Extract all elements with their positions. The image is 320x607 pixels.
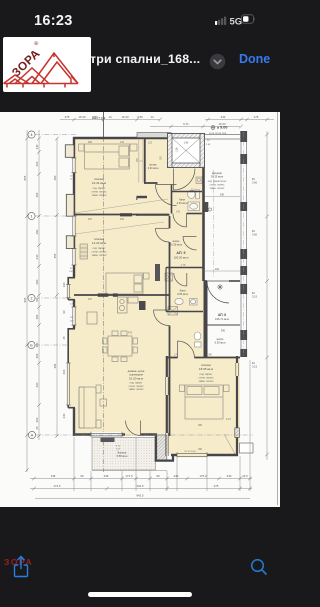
svg-text:2: 2 [31, 296, 33, 300]
svg-text:антре: антре [173, 240, 181, 243]
svg-text:210: 210 [35, 254, 39, 259]
svg-text:440: 440 [62, 369, 66, 374]
diagonal slope line bedroom2 [75, 222, 164, 234]
columns wall center line [243, 132, 245, 356]
nav title [90, 52, 200, 66]
planter dark rect under window [101, 438, 115, 443]
furniture living: dining table + chairs [103, 331, 138, 362]
svg-text:таван: латекс: таван: латекс [129, 388, 145, 391]
wall pier with meter [205, 202, 209, 212]
furniture bedroom2: wardrobe [80, 244, 88, 259]
svg-text:280: 280 [198, 424, 203, 427]
svg-text:5.58 кв.м: 5.58 кв.м [117, 454, 128, 458]
furniture living: fridge dark [139, 301, 146, 310]
window W1 [71, 158, 76, 173]
svg-text:467: 467 [88, 218, 93, 221]
roofs [4, 53, 79, 88]
svg-text:290: 290 [35, 279, 39, 284]
svg-text:375: 375 [65, 115, 70, 119]
bedroom3 top wall [166, 357, 240, 359]
svg-text:150: 150 [120, 218, 125, 221]
window W5 gap [91, 432, 122, 437]
svg-text:1.96: 1.96 [184, 142, 189, 145]
top dim chain [60, 120, 274, 127]
section line vertical [103, 112, 105, 472]
signal bars [215, 21, 217, 25]
corridor dim line [205, 196, 240, 198]
svg-text:3.60: 3.60 [252, 232, 258, 236]
svg-text:145: 145 [51, 474, 56, 478]
svg-text:баня: баня [179, 198, 185, 202]
bathroom2 fixtures: sink + tub [175, 298, 197, 305]
svg-text:12.5: 12.5 [226, 418, 231, 421]
svg-text:41.5: 41.5 [242, 474, 248, 478]
svg-text:246: 246 [104, 474, 109, 478]
window W3 [71, 307, 76, 325]
svg-text:дневна, кухня: дневна, кухня [128, 370, 145, 373]
right frame line [277, 112, 279, 505]
svg-text:123: 123 [120, 141, 125, 144]
room fill: left block (bedrooms + living) [74, 138, 169, 436]
balcony hatch sliver [157, 435, 167, 461]
balcony side wall [155, 434, 157, 462]
svg-text:кота готов под: кота готов под [209, 132, 227, 135]
svg-text:342.5: 342.5 [137, 484, 144, 488]
bay window 2 (living) [68, 329, 76, 409]
wall blocks on bedroom wall y215 [120, 213, 132, 216]
svg-text:таван: латекс: таван: латекс [199, 380, 215, 383]
washing machine [168, 307, 178, 316]
chevron button [209, 53, 226, 70]
AC box outside [240, 443, 254, 453]
diagonal slope line bedroom1 [75, 199, 168, 213]
svg-text:90: 90 [80, 474, 84, 478]
bathroom1 fixtures: sink [188, 202, 200, 211]
living bottom wall [73, 433, 125, 435]
left dim ticks [25, 137, 59, 472]
svg-text:100.20 кв.м: 100.20 кв.м [174, 256, 189, 260]
rotated ЗОРА text [7, 40, 48, 80]
stairwell [168, 134, 212, 168]
svg-text:220: 220 [35, 161, 39, 166]
svg-text:275: 275 [214, 484, 219, 488]
svg-text:420: 420 [35, 382, 39, 387]
svg-text:240: 240 [174, 474, 179, 478]
door arc: bedroom2 [155, 228, 169, 242]
svg-text:10.26 кв.м: 10.26 кв.м [170, 243, 182, 247]
svg-text:4: 4 [31, 133, 33, 137]
svg-text:405: 405 [35, 192, 39, 197]
red ZORA remnant [4, 557, 33, 567]
left grid bubbles + axes [28, 131, 36, 439]
furniture bedroom1: bed [79, 144, 138, 169]
battery [242, 15, 254, 23]
svg-text:3.65 кв.м: 3.65 кв.м [177, 292, 188, 296]
level mark +9.00 [209, 126, 228, 136]
svg-text:18.05 кв.м: 18.05 кв.м [199, 367, 213, 371]
window W1b [71, 216, 76, 236]
bay window 1 (bedroom2) [68, 277, 76, 300]
svg-text:0.50: 0.50 [137, 115, 143, 119]
wardrobe bedroom1 right [139, 140, 143, 183]
svg-text:290: 290 [35, 229, 39, 234]
bottom dim chains [30, 360, 252, 499]
svg-text:465: 465 [35, 353, 39, 358]
svg-text:390: 390 [53, 175, 57, 180]
svg-text:39.25 кв.м: 39.25 кв.м [211, 175, 223, 179]
right columns wall [240, 131, 247, 357]
svg-text:3.60: 3.60 [252, 180, 258, 184]
svg-text:16.33: 16.33 [122, 115, 129, 119]
svg-text:3.15: 3.15 [252, 294, 258, 298]
neighbor inner wall [204, 324, 241, 326]
svg-text:5G: 5G [230, 17, 243, 27]
svg-text:антре: антре [217, 338, 225, 341]
svg-text:4.33 кв.м: 4.33 кв.м [177, 201, 188, 205]
door arc: bedroom3 [178, 341, 195, 358]
svg-text:473: 473 [128, 332, 133, 335]
bedroom3 left windows [166, 377, 169, 456]
svg-text:25: 25 [35, 426, 39, 430]
furniture bedroom2: bed [106, 273, 149, 294]
neighbor bathroom fixtures [194, 332, 201, 347]
svg-text:427: 427 [88, 298, 93, 301]
svg-text:90: 90 [156, 474, 160, 478]
svg-text:Балкон: Балкон [118, 451, 127, 455]
svg-text:240: 240 [221, 115, 226, 119]
svg-text:380: 380 [35, 342, 39, 347]
svg-text:90: 90 [62, 310, 66, 314]
furniture living: cabinet left [87, 312, 97, 324]
share icon [13, 554, 29, 578]
right side small labels [252, 177, 258, 368]
svg-text:805: 805 [23, 175, 27, 180]
corridor shaft boxes [165, 273, 173, 281]
bathroom1 walls [172, 191, 203, 193]
top wall step block [137, 133, 171, 138]
svg-text:16.33: 16.33 [79, 115, 86, 119]
svg-text:16.34 кв.м: 16.34 кв.м [92, 181, 106, 185]
svg-text:14: 14 [108, 115, 112, 119]
svg-text:180: 180 [35, 314, 39, 319]
svg-text:коридор: коридор [212, 172, 222, 175]
svg-text:± 9.00: ± 9.00 [217, 126, 228, 130]
room fill: corridor strip [136, 138, 204, 358]
Done button [239, 52, 270, 66]
svg-text:3.15: 3.15 [252, 364, 258, 368]
svg-text:АП. 9: АП. 9 [176, 251, 185, 255]
bathroom1 fixtures: toilet [188, 190, 200, 199]
svg-text:280: 280 [88, 141, 93, 144]
door arc: living balcony door [126, 421, 141, 436]
left exterior wall segments [73, 137, 75, 436]
door arc: bathroom1 [173, 214, 187, 228]
svg-text:172.5: 172.5 [54, 484, 61, 488]
corridor left wall (vertical) [169, 216, 171, 436]
svg-text:5.71: 5.71 [183, 122, 189, 126]
search icon [249, 557, 269, 577]
corner diagonal [224, 434, 236, 455]
svg-text:таван: латекс: таван: латекс [210, 187, 226, 190]
apartment boundary wall right of corridor [202, 167, 205, 281]
wall pier bedroom2 right [155, 264, 160, 281]
svg-text:106.71 кв.м: 106.71 кв.м [215, 317, 229, 321]
svg-text:+7.67: +7.67 [96, 117, 105, 121]
svg-text:90: 90 [35, 298, 39, 302]
floor plan [0, 112, 280, 507]
svg-text:240: 240 [221, 330, 226, 333]
window dim tags [69, 176, 75, 323]
balcony stipple bottom-center [92, 438, 156, 471]
furniture living: kitchen counter [118, 297, 139, 313]
door arc: wc [183, 237, 197, 251]
door arc: living room [154, 310, 170, 326]
svg-text:15: 15 [62, 336, 66, 340]
bedroom3 bottom wall [171, 454, 238, 457]
interior wall bedroom1/2 [74, 214, 169, 216]
svg-text:баня: баня [180, 289, 186, 293]
svg-text:175: 175 [254, 115, 259, 119]
top exterior wall [73, 137, 173, 139]
home indicator [88, 592, 192, 597]
svg-text:140: 140 [62, 282, 66, 287]
status bar [34, 13, 73, 29]
furniture bedroom3: bed [180, 385, 230, 419]
left dim numbers (rotated) [23, 144, 66, 429]
door arc: closet [156, 185, 177, 206]
svg-text:31.20 кв.м: 31.20 кв.м [129, 376, 143, 380]
bedroom3 bottom window [177, 453, 207, 458]
svg-text:таван: латекс: таван: латекс [92, 194, 108, 197]
plan background [0, 112, 280, 507]
svg-text:килер: килер [150, 164, 158, 167]
room fill: bedroom 3 [166, 356, 240, 454]
status icons right [215, 13, 259, 26]
furniture living: couch [79, 385, 107, 428]
svg-text:175.0: 175.0 [200, 474, 207, 478]
door arc: neighbor entry [207, 281, 229, 303]
svg-text:300: 300 [35, 417, 39, 422]
svg-text:14: 14 [150, 115, 154, 119]
door arc: apartment entry [174, 169, 196, 191]
common corridor bottom wall [205, 280, 241, 282]
svg-text:255: 255 [53, 253, 57, 258]
svg-text:АП. 8: АП. 8 [218, 313, 226, 317]
bedroom3 right wall [236, 356, 238, 456]
svg-text:842.5: 842.5 [137, 494, 144, 498]
svg-text:171.5: 171.5 [126, 474, 133, 478]
svg-text:14.33 кв.м: 14.33 кв.м [92, 241, 106, 245]
left dim chain lines [27, 130, 57, 472]
right dim chain [266, 131, 268, 460]
svg-text:1: 1 [31, 214, 33, 218]
bathroom2 walls [166, 267, 203, 269]
wall piers on left wall [65, 145, 74, 249]
light symbol star [217, 284, 223, 290]
svg-text:6.30 кв.м: 6.30 кв.м [215, 341, 226, 345]
svg-text:140: 140 [35, 144, 39, 149]
bedroom3 left wall [166, 356, 168, 433]
svg-text:905: 905 [23, 297, 27, 302]
svg-text:таван: латекс: таван: латекс [92, 254, 108, 257]
corridor center line [213, 170, 215, 278]
window W2 [71, 249, 76, 266]
top corridor wall above [204, 135, 242, 140]
svg-text:1.75: 1.75 [181, 264, 186, 267]
svg-text:240: 240 [227, 474, 232, 478]
svg-text:1.36: 1.36 [176, 147, 179, 152]
door arc: bathroom2 [174, 273, 187, 286]
svg-text:ПР 90 2000: ПР 90 2000 [184, 451, 196, 453]
svg-text:240: 240 [62, 413, 66, 418]
svg-text:240: 240 [220, 194, 225, 197]
svg-text:2.91 кв.м: 2.91 кв.м [148, 166, 159, 170]
wall piers on kitchen wall [98, 293, 109, 296]
closet (kiler) walls [137, 139, 158, 216]
interior wall bedroom2/living [74, 294, 169, 296]
svg-text:120: 120 [215, 268, 220, 271]
level mark +7.67 [92, 117, 105, 121]
svg-text:495: 495 [53, 363, 57, 368]
ZORA logo patch [3, 37, 91, 92]
